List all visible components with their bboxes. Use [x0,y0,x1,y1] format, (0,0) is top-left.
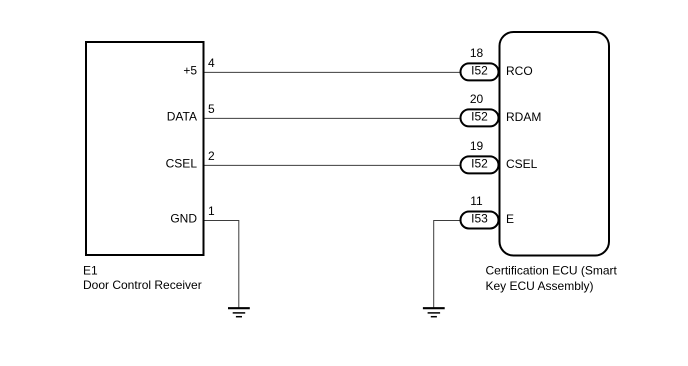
svg-text:I53: I53 [471,212,488,226]
svg-text:I52: I52 [471,156,488,170]
svg-text:19: 19 [470,139,484,153]
svg-text:11: 11 [470,194,483,208]
svg-text:18: 18 [470,46,484,60]
svg-text:CSEL: CSEL [166,156,198,170]
svg-text:4: 4 [208,56,215,70]
svg-text:1: 1 [208,204,215,218]
svg-text:Certification ECU (Smart: Certification ECU (Smart [486,264,618,278]
svg-text:RDAM: RDAM [506,110,541,124]
svg-text:Door Control Receiver: Door Control Receiver [83,278,202,292]
svg-text:DATA: DATA [167,109,197,123]
svg-text:E: E [506,212,514,226]
svg-text:RCO: RCO [506,64,533,78]
svg-text:5: 5 [208,102,215,116]
svg-text:I52: I52 [471,63,488,77]
svg-text:+5: +5 [183,63,197,77]
svg-text:20: 20 [470,92,484,106]
svg-text:E1: E1 [83,263,98,277]
svg-text:GND: GND [170,212,197,226]
svg-text:2: 2 [208,149,215,163]
svg-text:CSEL: CSEL [506,157,538,171]
svg-text:I52: I52 [471,109,488,123]
svg-text:Key ECU Assembly): Key ECU Assembly) [486,279,594,293]
